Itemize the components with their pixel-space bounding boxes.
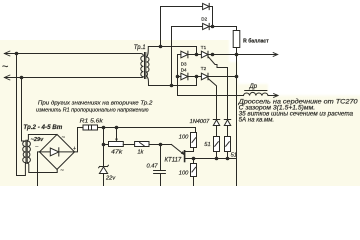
wire: bridge plus up to R1 [75, 128, 84, 152]
wire: input1 down to Tr.2 primary bottom [17, 54, 26, 176]
background canvas [0, 0, 360, 186]
transformer Tr.1 primary winding [141, 54, 144, 78]
wire: bridge minus down [38, 152, 40, 186]
wire: choke output arrow [268, 95, 277, 97]
node: zener/pot-row junction [102, 143, 106, 147]
svg-text:~: ~ [2, 61, 8, 73]
node: cap / emitter junction [159, 143, 163, 147]
wire: D2 node to ballast resistor [209, 27, 236, 31]
node: output plus junction [235, 53, 239, 57]
node: D1/D2 cathode junction [211, 25, 215, 29]
svg-text:~29v: ~29v [31, 137, 44, 143]
node: D3/T1 junction [195, 53, 199, 57]
node: terminal B / D2-branch junction [170, 84, 174, 88]
wire: D3/D4 anode branch down to choke rail [178, 55, 244, 96]
node: R51b rail junction [226, 157, 230, 161]
svg-text:Др: Др [249, 84, 258, 90]
node: terminal A / top-rail junction [159, 45, 163, 49]
svg-text:Тр.2 - 4-5 Вт: Тр.2 - 4-5 Вт [23, 124, 62, 131]
wire: 1k to emitter node [149, 144, 172, 146]
wire: zener to bottom [103, 174, 105, 187]
node: D4 anode / choke branch junction [176, 75, 180, 79]
svg-text:T2: T2 [201, 66, 207, 71]
wire: pot to 1k [123, 144, 134, 146]
resistor 51 b [225, 137, 231, 152]
wire: terminal A down to T1 anode [196, 47, 198, 55]
svg-text:51: 51 [231, 152, 237, 158]
unijunction transistor KT117 [172, 145, 185, 155]
svg-text:изменить R1 пропорционально на: изменить R1 пропорционально напряжению [36, 107, 149, 113]
node: R1/pot wiper junction [115, 126, 119, 130]
diode D2 [203, 23, 210, 29]
svg-text:47k: 47k [111, 150, 124, 156]
wire: ballast bottom to output node [236, 48, 238, 187]
svg-text:~: ~ [60, 168, 64, 174]
node: junction input1 / Tr.2 primary [15, 52, 19, 56]
svg-text:D4: D4 [181, 68, 187, 73]
diode D3 [181, 51, 188, 58]
wire: diode b to R51 b [227, 126, 229, 137]
thyristor T1 [201, 51, 208, 58]
wire: output arrow plus [237, 54, 277, 56]
diode D4 [181, 73, 188, 80]
wire: input2 down to Tr.2 primary top [22, 78, 26, 142]
resistor 51 a [214, 137, 220, 152]
wire: node A up to D1 rail [161, 7, 203, 47]
wire: D4 cathode to T2 [188, 76, 202, 78]
transformer Tr.2 secondary winding [28, 141, 31, 163]
wire: D3 cathode to T1 [188, 54, 202, 56]
node: D4/T2 junction [195, 75, 199, 79]
wire: Tr.1 sec bottom lead [147, 76, 197, 86]
wire: terminal B up to D2 anode [172, 27, 203, 86]
svg-text:С зазором 3(1.5+1.5)мм.: С зазором 3(1.5+1.5)мм. [239, 105, 316, 111]
transformer Tr.1 core [145, 53, 146, 79]
svg-text:D3: D3 [181, 61, 187, 66]
node: R1/zener junction [102, 126, 106, 130]
node: junction input2 / Tr.2 primary [20, 76, 24, 80]
svg-text:КТ117: КТ117 [165, 157, 182, 163]
transformer Tr.2 core [26, 140, 27, 163]
potentiometer 47k [109, 142, 124, 147]
wire: T1 cathode to output node [208, 54, 237, 56]
capacitor 0.47 [160, 145, 162, 171]
transformer Tr.2 primary winding [23, 141, 26, 163]
choke Dr [244, 92, 269, 95]
node: base1/R100 junction [192, 157, 196, 161]
wire: R1 row into 100 upper [195, 128, 197, 133]
wire: D1 cathode down to D2 node [209, 7, 212, 27]
wire: AC input line 2 [5, 77, 142, 79]
svg-text:5А на кв.мм.: 5А на кв.мм. [239, 117, 275, 123]
KT117 base1 wire / trigger rail [185, 158, 237, 160]
svg-text:R1 5.6k: R1 5.6k [80, 118, 104, 124]
wire: D4 anode stub [178, 76, 181, 78]
wire: R51a to rail [216, 152, 218, 159]
resistor 1k [135, 142, 149, 147]
wire: zener node to pot [104, 144, 109, 146]
svg-text:100: 100 [179, 134, 189, 140]
wire: zener branch [103, 128, 105, 167]
svg-text:R балласт: R балласт [243, 38, 269, 45]
svg-text:1N4007: 1N4007 [190, 119, 211, 125]
resistor 100 lower [191, 164, 197, 177]
svg-text:–: – [35, 144, 38, 150]
wire: T1 gate [208, 56, 228, 119]
node: T1 cathode / D2 vertical junction [211, 53, 215, 57]
svg-text:D2: D2 [201, 17, 207, 22]
wire: AC input line 1 [5, 53, 142, 55]
wire: T2 cathode to output vertical [208, 76, 237, 78]
svg-text:0.47: 0.47 [147, 163, 159, 169]
resistor R1 5.6k [83, 125, 98, 130]
resistor R ballast [233, 31, 240, 48]
wire: base1 to 100 lower to bottom [193, 159, 195, 164]
input arrow 2 [4, 75, 10, 80]
transformer Tr.1 secondary winding [147, 57, 150, 76]
wire: T2 gate [208, 78, 217, 119]
wire: diode a to R51 a [216, 126, 218, 137]
resistor 100 upper [191, 133, 197, 148]
bridge rectifier diamond [40, 134, 75, 169]
zener diode 22v [99, 167, 107, 174]
diode 1N4007 b [224, 120, 230, 126]
wire: Tr.2 secondary top to bridge ~ top [28, 135, 57, 142]
node: R51a rail junction [215, 157, 219, 161]
svg-text:51: 51 [204, 142, 210, 148]
svg-text:Тр.1: Тр.1 [134, 45, 146, 51]
wire: Tr.2 secondary bottom to bridge ~ bottom [28, 163, 58, 173]
KT117 base2 wire [185, 148, 194, 152]
wire: R1 row [98, 127, 196, 129]
svg-text:22v: 22v [105, 176, 116, 182]
wire: R51b to rail [227, 152, 229, 159]
svg-text:При других значениях на вторич: При других значениях на вторичке Тр.2 [38, 101, 153, 107]
diode D1 [203, 3, 210, 9]
svg-text:T1: T1 [201, 45, 207, 50]
input arrow 1 [4, 51, 10, 56]
svg-text:100: 100 [179, 170, 189, 176]
svg-text:+: + [73, 146, 76, 152]
wire: pot wiper arrow [116, 128, 118, 140]
wire: D3 anode stub [178, 54, 181, 56]
bridge internal diode [40, 151, 75, 153]
node: T2 cathode junction [235, 75, 239, 79]
wire: Tr.1 sec top lead to node A [147, 47, 197, 58]
diode 1N4007 a [213, 120, 219, 126]
svg-text:~: ~ [62, 135, 66, 141]
thyristor T2 [201, 73, 208, 80]
